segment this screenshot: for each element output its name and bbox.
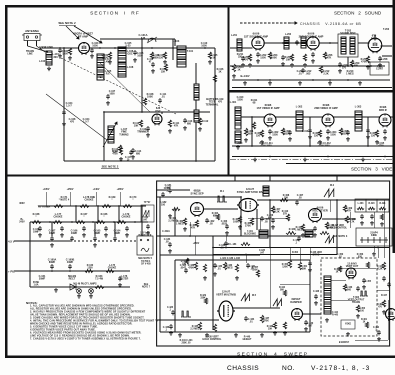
ground bottom 1: [178, 333, 182, 337]
divider section1/section2: [227, 6, 229, 176]
svg-text:T-203: T-203: [383, 29, 390, 31]
test point waveform box: [141, 205, 154, 222]
capacitor C-314: [366, 128, 370, 133]
resistor R-457: [256, 270, 259, 277]
left vertical wire: [63, 48, 65, 161]
ground C-410: [370, 221, 374, 225]
capacitor C-303: [288, 130, 292, 135]
capacitor C-204 coupling: [295, 40, 299, 45]
row1 dot d: [141, 205, 143, 207]
ground R-204: [290, 63, 294, 67]
resistor R-450: [288, 260, 291, 268]
resistor R-431: [203, 264, 206, 272]
ground R-111: [168, 129, 172, 133]
ground row5: [54, 288, 58, 292]
vert pulse waveform: [181, 311, 191, 317]
resistor R-167: [76, 221, 85, 224]
resistor R-402: [183, 218, 186, 225]
wire osc top right: [174, 39, 176, 46]
junction s4 left b: [159, 319, 161, 321]
tube V-201 1st sound IF: [252, 37, 264, 51]
svg-text:+135V: +135V: [43, 189, 50, 191]
section 4 enclosure box: [157, 181, 390, 346]
row2 dot d: [113, 221, 115, 223]
capacitor C-113: [183, 118, 187, 123]
sound bus dot 4: [269, 79, 271, 81]
sound discriminator transformer T-201: [338, 34, 358, 57]
junction sync out b: [336, 199, 338, 201]
b+ row2 wire: [30, 221, 148, 223]
kine socket pins: [360, 237, 388, 243]
svg-text:L-103: L-103: [173, 40, 180, 43]
svg-text:+140V: +140V: [93, 188, 100, 191]
resistor R-455: [338, 266, 341, 272]
ground C-112: [146, 133, 150, 137]
svg-text:L-403: L-403: [358, 202, 365, 205]
vert yoke plug box: [341, 320, 355, 329]
resistor R-304: [318, 130, 321, 137]
video vert drop a: [251, 117, 253, 146]
svg-text:R-313 C-3114700 1500: R-313 C-3114700 1500: [259, 143, 273, 148]
pilot lamp 1: [77, 289, 82, 294]
svg-text:C-402A: C-402A: [162, 230, 170, 233]
sweep bus dot 1: [269, 247, 271, 249]
vert drop x270 low: [269, 248, 271, 309]
svg-text:6CB63RD IF: 6CB63RD IF: [379, 105, 388, 112]
resistor R-429: [204, 298, 207, 304]
capacitor C-434: [244, 316, 248, 321]
resistor R-406: [250, 218, 253, 225]
capacitor C-169: [60, 226, 64, 231]
section4 inner left wire: [159, 197, 161, 332]
sync tube cathode wire: [189, 222, 191, 236]
ground R-205: [303, 63, 307, 67]
svg-text:SELENRECT: SELENRECT: [68, 275, 76, 281]
capacitor C-405: [260, 216, 264, 221]
feedthrough stub b: [269, 177, 271, 182]
capacitor C-450: [308, 261, 312, 266]
sync out wire: [257, 199, 390, 201]
ground bottom 2: [205, 333, 209, 337]
svg-text:+265V: +265V: [117, 189, 124, 191]
b+ feed stub 2: [69, 192, 71, 206]
s4 vert x226: [225, 236, 227, 241]
capacitor C-212: [301, 68, 305, 73]
svg-text:SEE NOTE 2: SEE NOTE 2: [58, 21, 76, 25]
ground C-305: [346, 137, 350, 141]
ground C-303: [288, 137, 292, 141]
trimmer capacitor C-121: [147, 37, 157, 43]
svg-text:LOOP LINK: LOOP LINK: [39, 45, 53, 49]
capacitor C-455: [362, 278, 366, 283]
osc grid wire: [100, 38, 175, 40]
ground C-430: [213, 272, 217, 276]
sweep wire y190: [157, 189, 190, 191]
video input coil L-301: [235, 107, 241, 129]
vert box wire: [331, 279, 346, 281]
interstage coil L-203: [301, 37, 306, 48]
svg-text:R-108100K: R-108100K: [147, 93, 154, 99]
svg-text:R-422: R-422: [289, 228, 296, 231]
capacitor C-114: [131, 148, 135, 153]
border frame left: [5, 5, 7, 357]
resistor R-103: [150, 52, 153, 59]
sound bus y66 extension: [300, 65, 385, 67]
capacitor C-438: [314, 294, 318, 299]
sound bus ground 3: [328, 81, 332, 85]
ground R-114: [119, 157, 123, 161]
capacitor C-164: [113, 236, 117, 241]
resistor R-184: [241, 243, 250, 246]
capacitor C-406: [271, 218, 275, 223]
resistor R-408: [280, 199, 288, 202]
sound bus dot 5: [329, 79, 331, 81]
resistor R-456: [356, 305, 359, 312]
ground C-455: [362, 285, 366, 289]
row drop b: [94, 222, 96, 236]
resistor R-305: [339, 128, 342, 135]
ground R-102: [108, 60, 112, 64]
svg-text:C-208: C-208: [381, 58, 388, 61]
ground C-168: [38, 233, 42, 237]
tuning linkage diagonal 2: [100, 63, 150, 112]
sound lower rail: [232, 87, 392, 89]
antenna lead left: [27, 41, 29, 47]
capacitor C-208: [378, 56, 382, 61]
volume control box: [370, 62, 389, 75]
resistor R-166: [96, 221, 105, 224]
sound bus dot 1: [257, 79, 259, 81]
capacitor C-102: [90, 48, 94, 53]
b+ row1 wire: [38, 205, 146, 207]
ground C-101: [58, 54, 62, 58]
audio out wire 2: [381, 45, 393, 47]
pilot lamp 2: [89, 289, 94, 294]
junction x196 y161: [195, 160, 197, 162]
resistor R-113: [118, 145, 121, 152]
row2 dot a: [49, 221, 51, 223]
svg-text:C-438: C-438: [313, 290, 320, 293]
sweep vert drop x290: [289, 248, 291, 261]
sweep bottom right wire: [355, 339, 388, 341]
ground R-433: [235, 276, 239, 280]
filter resistor b: [368, 207, 375, 209]
ground C-306: [383, 136, 387, 140]
capacitor C-115: [151, 62, 155, 67]
ground pilot 1: [77, 294, 81, 298]
ground R-101: [68, 56, 72, 60]
resistor R-162: [85, 270, 93, 273]
b+ vertical left: [29, 222, 31, 287]
svg-text:C-16810MF: C-16810MF: [33, 229, 40, 234]
kinescope socket box: [356, 228, 392, 246]
sync wire top: [157, 196, 241, 198]
svg-text:L-201: L-201: [231, 35, 238, 37]
wire drop x173: [172, 39, 174, 60]
ground C-406: [271, 225, 275, 229]
video wire 2: [303, 116, 323, 118]
sync transformer hatch: [263, 186, 269, 196]
ground R-302: [260, 140, 264, 144]
resistor R-203: [268, 52, 271, 59]
junction t201 tap: [347, 65, 349, 67]
ground C-304: [326, 136, 330, 140]
video section bottom line: [286, 163, 393, 165]
tube V-402 sync amp/inverter: [237, 199, 259, 212]
vertical connect v403: [269, 200, 271, 248]
video IF transformer T-302: [355, 111, 362, 131]
resistor R-212: [319, 66, 322, 73]
svg-text:AGC: AGC: [237, 142, 243, 145]
resistor R-451: [298, 262, 301, 270]
sync pulse waveform: [217, 196, 227, 202]
junction mid x213: [212, 247, 214, 249]
resistor R-312: [252, 122, 255, 129]
sound t201 tap: [347, 57, 349, 66]
video vert drop c: [367, 117, 369, 146]
sound b+ bus: [232, 79, 390, 81]
sound wire v201-v202: [264, 42, 308, 44]
capacitor C-205: [311, 52, 315, 57]
resistor R-302: [260, 130, 263, 137]
svg-text:R-420: R-420: [368, 202, 375, 205]
svg-text:SEE NOTE 2: SEE NOTE 2: [102, 165, 119, 169]
svg-text:ANTENNA: ANTENNA: [25, 29, 39, 33]
svg-text:R-452: R-452: [292, 251, 299, 254]
damper wire: [303, 313, 322, 315]
junction plate bus 6: [204, 47, 206, 49]
capacitor C-440: [304, 320, 308, 325]
feedthrough stub a: [234, 177, 236, 182]
sweep wire y258: [160, 254, 260, 256]
svg-text:TO PIN 4OF V-405: TO PIN 4OF V-405: [141, 260, 151, 265]
junction osc bus 1: [141, 38, 143, 40]
row1 drop x119: [118, 206, 120, 222]
video IF transformer T-301: [296, 111, 303, 131]
svg-text:R-208470K: R-208470K: [361, 58, 368, 64]
sub-box bottom wire: [64, 160, 215, 162]
sub-box left wire: [103, 112, 105, 161]
video input coil L-304: [235, 131, 241, 143]
resistor R-206: [323, 52, 326, 59]
sawtooth near kine: [325, 236, 333, 243]
video wire 1: [276, 116, 297, 118]
tube V-406 vertical output: [346, 268, 356, 279]
ground R-431: [203, 276, 207, 280]
junction plate bus 3: [141, 47, 143, 49]
wire grid left stub: [44, 47, 54, 49]
resistor R-437: [260, 315, 263, 323]
ground bottom 3: [234, 333, 238, 337]
sweep horiz y284: [280, 283, 310, 285]
resistor R-202: [248, 54, 251, 61]
ground R-202: [248, 63, 252, 67]
svg-text:R-447: R-447: [381, 294, 388, 297]
sound right edge wire: [382, 55, 392, 57]
ground C-302: [268, 136, 272, 140]
input choke L-201: [237, 39, 242, 51]
ground C-211: [241, 63, 245, 67]
tube V-404 vertical multivibrator: [217, 301, 235, 321]
tuning linkage diagonal: [46, 94, 107, 140]
video bus dot 2: [327, 156, 329, 158]
capacitor C-210: [338, 62, 342, 67]
capacitor C-430: [213, 263, 217, 268]
ground C-409: [360, 221, 364, 225]
row drop c: [114, 222, 116, 236]
video b+ bus: [232, 156, 393, 158]
antenna lead right: [36, 41, 38, 47]
svg-text:SECTION I RF: SECTION I RF: [90, 11, 140, 17]
video agc bus: [232, 145, 393, 147]
vert output transformer T-402: [324, 276, 331, 314]
ground R-301: [244, 138, 248, 142]
ground R-104: [163, 60, 167, 64]
video bus dot 1: [269, 156, 271, 158]
ground C-202: [256, 59, 260, 63]
sound y66 dot a: [339, 65, 341, 67]
vert drop x195: [194, 236, 196, 255]
capacitor C-402: [205, 218, 209, 223]
junction sync x241: [240, 196, 242, 198]
capacitor C-171: [104, 226, 108, 231]
b+ feed stub 1: [45, 192, 47, 206]
border frame top: [5, 5, 394, 7]
vert box wire 2: [331, 299, 356, 301]
svg-text:+250V: +250V: [67, 189, 74, 191]
resistor R-404: [216, 214, 219, 220]
video bus dot 3: [384, 156, 386, 158]
row1 dot a: [75, 205, 77, 207]
resistor R-435: [198, 322, 201, 330]
sweep sub-box top wire: [175, 259, 310, 261]
sound wire v202-t201: [319, 42, 339, 44]
fine tuning arrow: [103, 122, 117, 147]
capacitor C-203: [281, 55, 285, 60]
hv wire right: [377, 289, 389, 291]
sound y66 dot b: [370, 65, 372, 67]
capacitor C-159: [118, 276, 122, 281]
tube V-101 RF amp: [79, 43, 90, 55]
sound bus dot 3: [347, 79, 349, 81]
capacitor C-403: [225, 224, 229, 229]
junction plate bus 5: [172, 47, 174, 49]
ground R-181: [168, 214, 172, 218]
svg-text:7. CHASSIS V-2178-3 USES V-: 7. CHASSIS V-2178-3 USES V-2158T-3 TV TU…: [30, 338, 141, 341]
resistor R-436: [213, 324, 216, 332]
ground C-172: [125, 233, 129, 237]
capacitor C-313: [308, 128, 312, 133]
ground C-462: [377, 337, 381, 341]
resistor R-409: [343, 205, 346, 212]
sweep bus lower: [213, 254, 337, 256]
tube V-401 sync separator: [191, 203, 204, 217]
b+ row5 wire: [30, 286, 130, 288]
ground C-314: [366, 135, 370, 139]
capacitor C-165: [93, 236, 97, 241]
svg-text:C-444R-445: C-444R-445: [332, 311, 339, 316]
svg-text:SECTION 4 SWEEP: SECTION 4 SWEEP: [237, 352, 308, 358]
sweep vert right x388: [387, 300, 389, 340]
row4 dot a: [51, 270, 53, 272]
ground C-106: [133, 58, 137, 62]
ground C-167: [50, 243, 54, 247]
ground L-304: [236, 145, 240, 149]
resistor R-169: [102, 205, 111, 208]
svg-text:C-16740MF: C-16740MF: [49, 230, 56, 236]
sweep vert drop x300: [299, 248, 301, 263]
svg-text:6J6OSC: 6J6OSC: [155, 106, 161, 113]
svg-text:B+140V: B+140V: [241, 75, 250, 78]
svg-text:R-2101 MEG: R-2101 MEG: [346, 70, 354, 76]
junction sync out: [269, 199, 271, 201]
resistor R-432: [223, 262, 226, 270]
sweep bus dot 2: [336, 247, 338, 249]
svg-text:SEE NOTE 5: SEE NOTE 5: [138, 258, 153, 260]
ground C-210: [338, 69, 342, 73]
svg-text:C-16640MF: C-16640MF: [71, 230, 78, 236]
capacitor C-442: [356, 286, 360, 291]
vert output dashed box: [321, 258, 377, 336]
capacitor C-426: [171, 310, 175, 315]
svg-text:TP 'W': TP 'W': [144, 202, 151, 204]
wire drop x142: [141, 39, 143, 112]
row1 dot b: [97, 205, 99, 207]
video wire dot c: [367, 145, 369, 147]
resistor R-204: [290, 54, 293, 61]
svg-text:L-301: L-301: [230, 101, 237, 104]
sweep bus dot 3: [377, 247, 379, 249]
capacitor C-160A: [50, 264, 54, 269]
vertical connect mid: [336, 200, 338, 255]
junction plate bus 4: [151, 47, 153, 49]
video wire dot b: [309, 145, 311, 147]
svg-text:B BOOST: B BOOST: [339, 342, 350, 344]
sound mid bus: [232, 65, 300, 67]
junction x104 y112: [103, 111, 105, 113]
svg-text:R-314 C-3124700 1500: R-314 C-3124700 1500: [317, 142, 331, 148]
row1 drop x76: [75, 206, 77, 222]
balun coil L-110: [194, 110, 199, 122]
capacitor C-170: [82, 226, 86, 231]
ground C-436: [169, 331, 173, 335]
svg-text:L-102: L-102: [39, 61, 46, 63]
sawtooth waveform top: [324, 189, 334, 197]
sound bus ground 2: [298, 81, 302, 85]
ground C-171: [104, 233, 108, 237]
ground below loop: [47, 67, 51, 71]
svg-text:R-4321 MEG: R-4321 MEG: [225, 264, 233, 270]
capacitor C-108: [62, 110, 66, 115]
resistor R-441: [283, 322, 286, 329]
resistor R-433: [235, 264, 238, 272]
ground R-456: [356, 314, 360, 318]
capacitor C-163: [146, 224, 150, 229]
resistor R-303: [281, 128, 284, 135]
video dash-dot line: [230, 158, 393, 160]
terminal strip T-101: [177, 46, 186, 67]
tube V-403 AGC keyer: [309, 209, 322, 223]
resistor R-424: [380, 214, 383, 220]
plate wire rf amp: [90, 47, 216, 49]
ground yoke: [346, 332, 350, 336]
row4 dot b: [69, 270, 71, 272]
junction bus mid a: [225, 247, 227, 249]
resistor R-458: [366, 262, 369, 268]
pulse wave right: [360, 291, 368, 296]
sweep sub-box right wire: [309, 260, 311, 332]
svg-text:R-4101 MEG: R-4101 MEG: [295, 226, 303, 232]
